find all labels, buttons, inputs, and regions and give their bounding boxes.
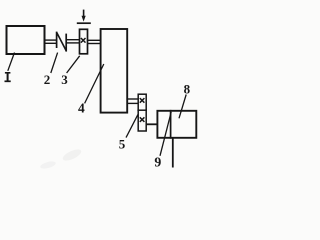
leader line label 8: [179, 95, 186, 119]
leader line label 1: [8, 53, 15, 71]
shaft wire coupling 2 to box 3 (double line): [66, 40, 79, 43]
label 4: [78, 101, 85, 116]
svg-text:5: 5: [119, 137, 126, 152]
label 3: [61, 72, 68, 87]
svg-text:4: 4: [78, 101, 85, 116]
svg-text:3: 3: [61, 72, 68, 87]
x mark in box 3: [81, 38, 86, 43]
shaft wire box 4 to gear pair 5 (double line): [127, 99, 138, 103]
x mark lower cell of 5: [140, 117, 145, 122]
box 3 (adjustable gear): [80, 29, 88, 54]
leader line label 4: [85, 64, 104, 103]
svg-text:9: 9: [154, 155, 161, 170]
label 9: [154, 155, 161, 170]
faint scan smudge bottom-left (decorative scan artifact): [39, 147, 82, 170]
gear pair 5 (two cells with x): [137, 94, 147, 131]
label 8: [184, 82, 191, 97]
leader line label 3: [67, 56, 80, 73]
box 4 (main gearbox): [101, 29, 128, 113]
adjustment arrow above box 3: [77, 10, 91, 24]
coupling 2 (N symbol): [57, 32, 67, 52]
output shaft below box 8: [172, 139, 174, 168]
leader line label 2: [51, 53, 58, 73]
svg-text:2: 2: [44, 72, 51, 87]
label 2: [44, 72, 51, 87]
box 1 (drive unit): [7, 26, 45, 54]
box 8 (indicator unit, with divider): [157, 110, 196, 139]
x mark upper cell of 5: [140, 98, 145, 103]
label 1 (I): [5, 73, 11, 82]
label 5: [119, 137, 126, 152]
svg-text:8: 8: [184, 82, 191, 97]
leader line label 9: [160, 112, 171, 156]
shaft wire box 3 to box 4 (double line): [88, 40, 101, 43]
leader line label 5: [126, 115, 138, 138]
wire gear pair 5 to box 8: [146, 123, 157, 125]
shaft wire box1 to coupling 2 (double line): [45, 40, 58, 43]
